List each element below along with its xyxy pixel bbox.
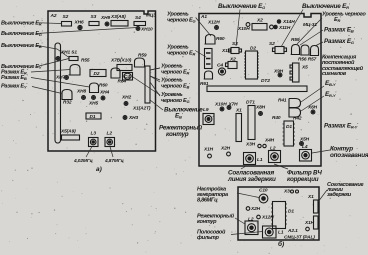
svg-text:D1: D1	[90, 114, 96, 120]
svg-text:ХН9: ХН9	[100, 15, 110, 21]
svg-text:4,02МГц: 4,02МГц	[73, 158, 93, 164]
svg-text:ХН5: ХН5	[88, 101, 98, 107]
svg-text:Х10Н: Х10Н	[214, 102, 227, 108]
svg-text:L9: L9	[203, 107, 209, 113]
svg-text:Х3: Х3	[283, 189, 290, 195]
svg-text:Х1: Х1	[307, 194, 314, 200]
svg-text:R41: R41	[278, 98, 287, 104]
svg-text:R59: R59	[138, 53, 147, 59]
svg-text:Х3(А8): Х3(А8)	[110, 14, 126, 20]
svg-text:Х2: Х2	[256, 18, 263, 24]
svg-text:постоянной: постоянной	[322, 59, 355, 66]
svg-text:L1: L1	[278, 230, 284, 236]
svg-text:фильтр: фильтр	[197, 234, 220, 241]
svg-text:R56 R57: R56 R57	[298, 57, 317, 63]
svg-text:R60: R60	[99, 83, 108, 89]
svg-text:СМЦ-3Т (РАL): СМЦ-3Т (РАL)	[284, 235, 315, 241]
svg-text:Х2Н: Х2Н	[220, 146, 231, 152]
svg-text:4,87МГц: 4,87МГц	[104, 158, 124, 164]
svg-text:сигналов: сигналов	[322, 71, 347, 77]
svg-text:ХН3: ХН3	[128, 115, 138, 121]
svg-text:D2: D2	[250, 46, 256, 52]
svg-text:ХН10: ХН10	[140, 27, 153, 33]
svg-text:L2: L2	[107, 131, 113, 137]
svg-text:ХН1 S1: ХН1 S1	[60, 50, 77, 56]
svg-text:Х5Н: Х5Н	[299, 137, 310, 143]
svg-text:Х5(А9): Х5(А9)	[60, 129, 76, 135]
svg-text:R40: R40	[272, 115, 281, 121]
svg-text:Выключение: Выключение	[164, 107, 203, 114]
svg-text:Х2Н: Х2Н	[250, 206, 261, 212]
svg-text:L1: L1	[257, 157, 263, 163]
svg-text:Х2: Х2	[229, 57, 236, 63]
svg-text:б): б)	[278, 240, 284, 248]
svg-text:С10: С10	[259, 188, 268, 194]
svg-text:L4: L4	[302, 144, 308, 150]
svg-text:S2: S2	[269, 41, 275, 47]
svg-text:R55: R55	[81, 58, 90, 64]
svg-text:D2: D2	[94, 71, 100, 77]
svg-text:А2.1: А2.1	[287, 228, 298, 234]
svg-text:ХН2: ХН2	[121, 95, 131, 101]
svg-text:Х4Н: Х4Н	[264, 138, 275, 144]
svg-text:S4: S4	[135, 15, 141, 21]
svg-text:S2: S2	[63, 14, 69, 20]
svg-text:ХН8: ХН8	[76, 89, 86, 95]
svg-text:Х12Н: Х12Н	[207, 20, 220, 26]
svg-text:L3: L3	[91, 131, 97, 137]
svg-text:Х6Н: Х6Н	[307, 105, 318, 111]
svg-text:Х14Н: Х14Н	[282, 19, 295, 25]
svg-text:Х1Н: Х1Н	[203, 147, 214, 153]
svg-text:Выключение ЕR': Выключение ЕR'	[302, 2, 351, 10]
svg-text:S3: S3	[232, 41, 238, 47]
svg-text:L2: L2	[248, 217, 254, 223]
svg-text:Х3Н: Х3Н	[245, 142, 256, 148]
svg-text:8,86МГц: 8,86МГц	[197, 198, 218, 204]
svg-text:Выключение ЕG': Выключение ЕG'	[1, 29, 44, 37]
svg-text:Х1(А2Т): Х1(А2Т)	[132, 106, 151, 112]
svg-text:D1: D1	[286, 124, 292, 130]
svg-text:С4: С4	[124, 74, 130, 80]
svg-text:линия задержки: линия задержки	[227, 175, 276, 183]
svg-text:DT1: DT1	[246, 100, 255, 106]
svg-text:Х1В: Х1В	[221, 48, 232, 54]
svg-text:DT2: DT2	[261, 78, 270, 84]
svg-text:Х10Н: Х10Н	[237, 26, 250, 32]
svg-text:Выключение ЕR': Выключение ЕR'	[1, 19, 43, 27]
svg-text:R32: R32	[63, 100, 72, 106]
svg-text:ХН6: ХН6	[74, 20, 84, 26]
svg-text:опознавания: опознавания	[330, 152, 368, 159]
svg-text:Х11Н: Х11Н	[278, 25, 291, 31]
svg-text:задержки: задержки	[327, 192, 352, 198]
svg-text:Выключение ЕG': Выключение ЕG'	[218, 2, 267, 10]
svg-text:А2: А2	[50, 13, 57, 19]
svg-text:R61: R61	[200, 81, 209, 87]
svg-text:А1: А1	[200, 14, 207, 20]
svg-text:R60: R60	[216, 36, 225, 42]
svg-text:ХН4: ХН4	[99, 90, 109, 96]
svg-text:контур: контур	[166, 131, 189, 138]
svg-text:МЦ3: МЦ3	[146, 13, 156, 19]
svg-text:Х8Н: Х8Н	[255, 105, 266, 111]
svg-text:С4: С4	[217, 63, 223, 69]
svg-text:Х9Н: Х9Н	[273, 69, 284, 75]
svg-text:МЦ-31: МЦ-31	[303, 22, 317, 28]
svg-text:R42: R42	[293, 116, 302, 122]
svg-text:Х12Н: Х12Н	[261, 215, 274, 221]
svg-text:D1: D1	[288, 209, 294, 215]
svg-text:Х7В(Х10): Х7В(Х10)	[110, 58, 132, 64]
svg-text:Х5: Х5	[301, 65, 308, 71]
svg-text:Уровень черного: Уровень черного	[322, 12, 366, 18]
svg-text:коррекции: коррекции	[287, 176, 319, 183]
svg-text:Х1: Х1	[235, 108, 242, 114]
svg-text:ХН7: ХН7	[55, 75, 65, 81]
svg-text:S3: S3	[91, 14, 97, 20]
svg-text:Выключение ЕB': Выключение ЕB'	[1, 41, 43, 49]
svg-text:а): а)	[96, 166, 102, 173]
svg-text:L2: L2	[270, 146, 276, 152]
svg-text:Х1Н: Х1Н	[304, 220, 315, 226]
svg-text:Х7Н: Х7Н	[228, 102, 239, 108]
svg-text:контур: контур	[197, 219, 217, 225]
svg-text:R59: R59	[291, 37, 300, 43]
